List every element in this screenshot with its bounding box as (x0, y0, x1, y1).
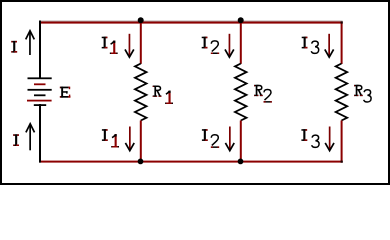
arrow up (battery current, top) (26, 31, 35, 55)
wire: R1 branch upper stub (140, 21, 142, 64)
junction node dot bottom-left (bottom wire / R1 branch) (138, 159, 144, 165)
wire corner top-right (341, 21, 343, 23)
label I1 (bottom) (102, 129, 119, 147)
arrow down I3 (bottom) (325, 127, 334, 151)
label I2 (top) (202, 37, 219, 54)
resistor R2 zigzag (235, 64, 247, 121)
resistor R3 zigzag (336, 64, 348, 121)
label I2 (bottom) (202, 129, 219, 148)
label I (battery current, bottom) (13, 134, 19, 146)
wire: left vertical lower (battery - lead) (39, 104, 41, 163)
wire: top horizontal (node from battery + to resistors) (39, 21, 343, 24)
label E (battery emf) (60, 87, 71, 98)
wire corner bottom-right (341, 161, 343, 163)
arrow down I2 (top) (225, 34, 234, 57)
arrow down I2 (bottom) (225, 127, 234, 151)
arrow down I3 (top) (325, 34, 334, 57)
arrow down I1 (bottom) (125, 127, 134, 151)
resistor R1 zigzag (135, 64, 147, 121)
junction node dot top-right (top wire / R2 branch) (238, 17, 244, 23)
battery E (27, 77, 52, 106)
wire: right vertical upper (R3 top lead) (341, 21, 343, 64)
junction node dot bottom-right (bottom wire / R2 branch) (238, 159, 244, 165)
arrow up (battery current, bottom) (26, 124, 35, 151)
label R1 (153, 86, 173, 105)
arrow down I1 (top) (125, 34, 134, 57)
label R2 (254, 85, 272, 103)
label I3 (bottom) (301, 129, 319, 147)
junction node dot top-left (top wire / R1 branch) (138, 17, 144, 23)
wire: right vertical lower (R3 bottom lead) (341, 121, 343, 163)
wire: R2 branch lower stub (240, 121, 242, 163)
label I3 (top) (302, 37, 319, 54)
wire: bottom horizontal (return node) (39, 161, 343, 163)
label I1 (top) (102, 37, 118, 54)
label R3 (354, 85, 371, 102)
label I (battery current, top) (11, 41, 17, 53)
wire: R1 branch lower stub (140, 121, 142, 163)
wire: left vertical upper (battery + lead) (39, 21, 41, 78)
wire: R2 branch upper stub (240, 21, 242, 64)
